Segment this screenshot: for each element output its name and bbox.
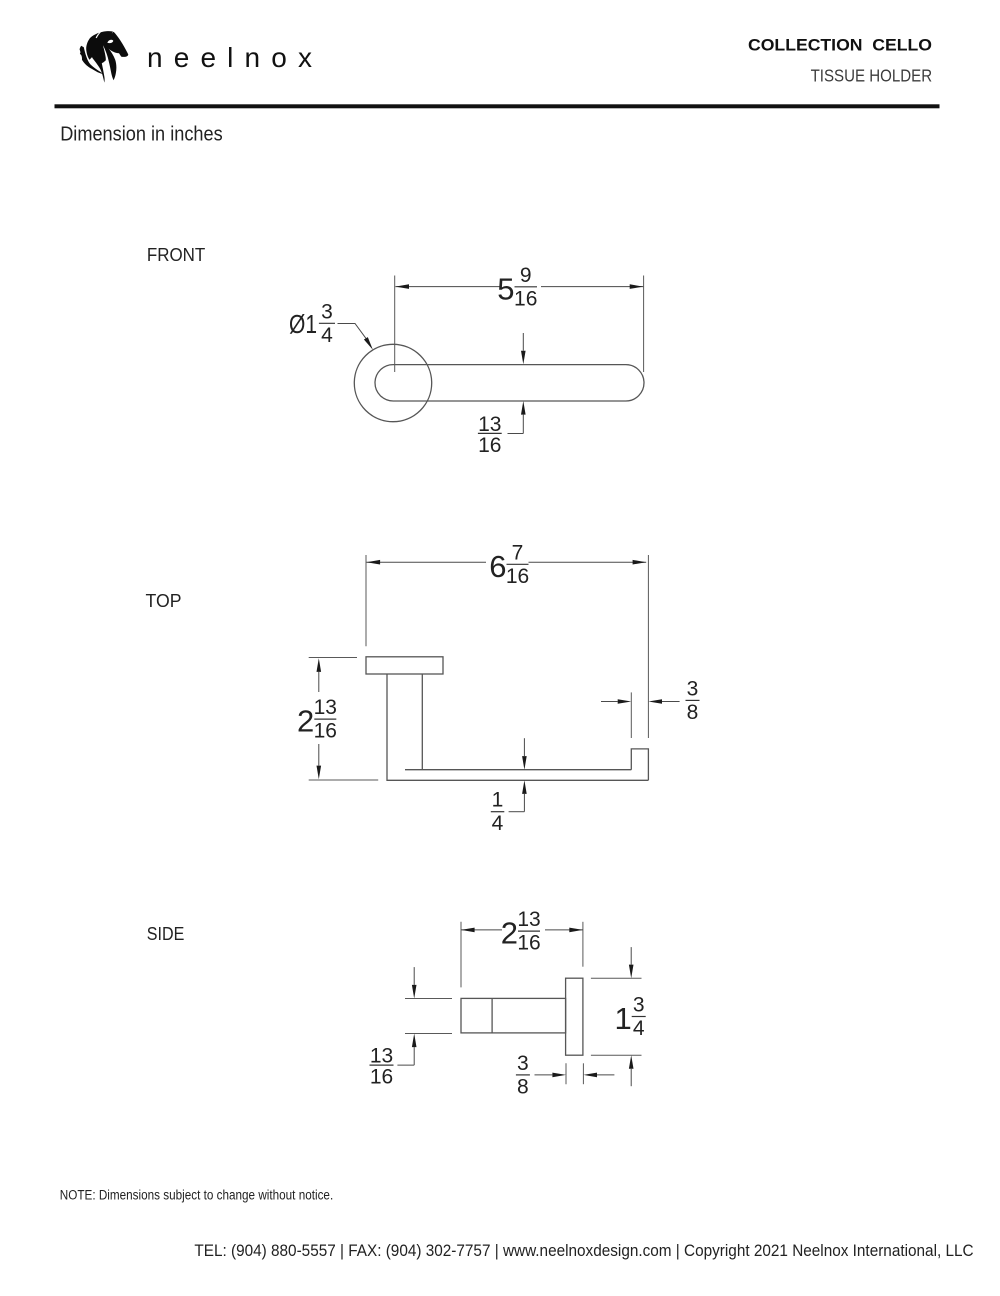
3/8 side right arrow (pointing left) (583, 1073, 597, 1078)
extension line left of 2 13/16 side (460, 922, 462, 988)
extension line right of 5 9/16 (643, 276, 645, 373)
svg-text:7: 7 (512, 541, 524, 564)
leader arrowhead on circle (364, 337, 373, 350)
13/16 side leader (397, 1064, 414, 1066)
1/4 leader (509, 811, 525, 813)
svg-text:8: 8 (687, 701, 699, 724)
svg-text:3: 3 (633, 994, 645, 1017)
svg-text:8: 8 (517, 1075, 529, 1098)
svg-text:16: 16 (514, 287, 537, 310)
header rule (55, 104, 940, 108)
svg-text:16: 16 (314, 720, 337, 743)
fraction bar 13/16 side (370, 1064, 394, 1066)
horse eye (107, 40, 113, 43)
svg-text:1: 1 (614, 1001, 631, 1036)
logo horse head (80, 31, 129, 82)
fraction bar 3/8 top view (686, 699, 700, 701)
fraction bar 7/16 (507, 563, 529, 565)
1/4 upper arrow (down) (523, 738, 525, 756)
extension line top of 2 13/16 (309, 657, 357, 659)
dimension line 6 7/16 (367, 561, 487, 563)
svg-text:3: 3 (321, 300, 333, 323)
extension line bottom 13/16 side (405, 1033, 452, 1035)
svg-text:16: 16 (478, 434, 501, 457)
fraction bar 9/16 (515, 286, 538, 288)
fraction bar 13/16 front (478, 432, 502, 434)
arrowhead right 5 9/16 (630, 284, 644, 289)
dimension line 5 9/16 (395, 286, 500, 288)
svg-text:Dimension in inches: Dimension in inches (60, 122, 223, 145)
fraction bar 3/4 (319, 322, 335, 324)
fraction bar 3/4 side (632, 1016, 646, 1018)
svg-text:COLLECTION CELLO: COLLECTION CELLO (748, 37, 932, 55)
extension line top of 1 3/4 (591, 977, 642, 979)
side view wall plate profile (566, 978, 583, 1055)
horse head and mane mass (86, 31, 128, 82)
side view arm profile (461, 998, 566, 1033)
svg-text:NOTE: Dimensions subject to ch: NOTE: Dimensions subject to change witho… (60, 1188, 333, 1203)
1/4 lower arrow (up) (522, 780, 527, 794)
leader line from Ø1 3/4 to circle (338, 324, 366, 339)
dimension text 3/8 top view (687, 677, 699, 724)
13/16 lower arrow (up) (521, 401, 526, 415)
top view stem left edge and bar bottom edge (387, 674, 648, 780)
extension line right 3/8 side (582, 1063, 584, 1084)
dimension text 6 7/16 (489, 541, 529, 588)
svg-text:13: 13 (478, 413, 501, 436)
front wall flange circle (354, 344, 431, 421)
dimension text 3/8 side (517, 1052, 529, 1099)
top view end hook (631, 749, 648, 780)
arrowhead right 2 13/16 side (569, 928, 583, 933)
svg-text:16: 16 (370, 1066, 393, 1089)
13/16 side upper arrow (down) (413, 967, 415, 985)
top view stem right edge (421, 674, 423, 770)
svg-text:FRONT: FRONT (147, 245, 205, 265)
svg-text:TISSUE HOLDER: TISSUE HOLDER (811, 66, 933, 86)
extension line right of 2 13/16 side (582, 922, 584, 967)
extension line top 13/16 side (405, 998, 452, 1000)
svg-text:TOP: TOP (146, 591, 182, 611)
1 3/4 upper arrow (down) (630, 947, 632, 965)
svg-text:4: 4 (321, 324, 333, 347)
top view bar top edge (405, 769, 631, 771)
extension line bottom of 2 13/16 (309, 779, 379, 781)
dimension text 2 13/16 top view (297, 696, 337, 743)
13/16 side lower arrow (up) (412, 1034, 417, 1048)
3/8 left arrow (pointing right) (601, 701, 618, 703)
dimension text 1 3/4 (614, 994, 644, 1041)
svg-text:4: 4 (492, 812, 504, 835)
diameter label text Ø1 3/4 (289, 300, 333, 347)
dimension text 13/16 front (478, 413, 501, 457)
svg-text:16: 16 (506, 565, 529, 588)
svg-text:3: 3 (687, 677, 699, 700)
svg-text:SIDE: SIDE (147, 924, 185, 944)
svg-text:TEL: (904) 880-5557 | FAX: (90: TEL: (904) 880-5557 | FAX: (904) 302-775… (194, 1242, 973, 1260)
front holder bar (375, 365, 644, 401)
dimension line 2 13/16 side (461, 929, 502, 931)
extension line left of 3/8 top view (630, 692, 632, 738)
svg-text:13: 13 (314, 696, 337, 719)
fraction bar 3/8 side (516, 1074, 530, 1076)
arrowhead left 6 7/16 (367, 560, 381, 565)
side view arm end cap line (491, 998, 493, 1033)
extension line left of 5 9/16 (394, 276, 396, 373)
dimension text 5 9/16 (497, 264, 537, 311)
extension line bottom of 1 3/4 (591, 1054, 642, 1056)
horse mane slit (96, 31, 102, 38)
arrowhead left 5 9/16 (395, 284, 409, 289)
svg-text:6: 6 (489, 549, 506, 584)
svg-text:3: 3 (517, 1052, 529, 1075)
extension line right of 6 7/16 and 3/8 (647, 555, 649, 738)
svg-text:5: 5 (497, 271, 514, 306)
13/16 leader (508, 433, 524, 435)
svg-text:13: 13 (517, 908, 540, 931)
top view wall plate (366, 657, 443, 674)
3/8 side left arrow (pointing right) (535, 1074, 553, 1076)
extension line left 3/8 side (565, 1063, 567, 1084)
svg-text:4: 4 (633, 1017, 645, 1040)
svg-text:Ø1: Ø1 (289, 309, 317, 339)
fraction bar 13/16 side top (518, 930, 540, 932)
arrowhead right 6 7/16 (633, 560, 647, 565)
svg-text:9: 9 (520, 264, 532, 287)
horse outer mane swoosh (80, 46, 104, 75)
svg-text:1: 1 (492, 789, 504, 812)
dimension line 2 13/16 (vertical) (317, 658, 322, 672)
extension line left of 6 7/16 (365, 555, 367, 646)
fraction bar 13/16 top view (314, 718, 336, 720)
svg-text:16: 16 (517, 932, 540, 955)
dimension text 1/4 top view (492, 789, 504, 836)
3/8 right arrow (pointing left) (648, 699, 662, 704)
13/16 upper arrow (down) (522, 333, 524, 351)
1 3/4 lower arrow (up) (629, 1055, 634, 1069)
svg-text:neelnox: neelnox (147, 42, 312, 73)
arrowhead left 2 13/16 side (461, 928, 475, 933)
fraction bar 1/4 top view (491, 811, 505, 813)
svg-text:13: 13 (370, 1045, 393, 1068)
svg-text:2: 2 (501, 916, 518, 951)
dimension text 2 13/16 side (501, 908, 541, 955)
svg-text:2: 2 (297, 704, 314, 739)
dimension text 13/16 side (370, 1045, 393, 1089)
